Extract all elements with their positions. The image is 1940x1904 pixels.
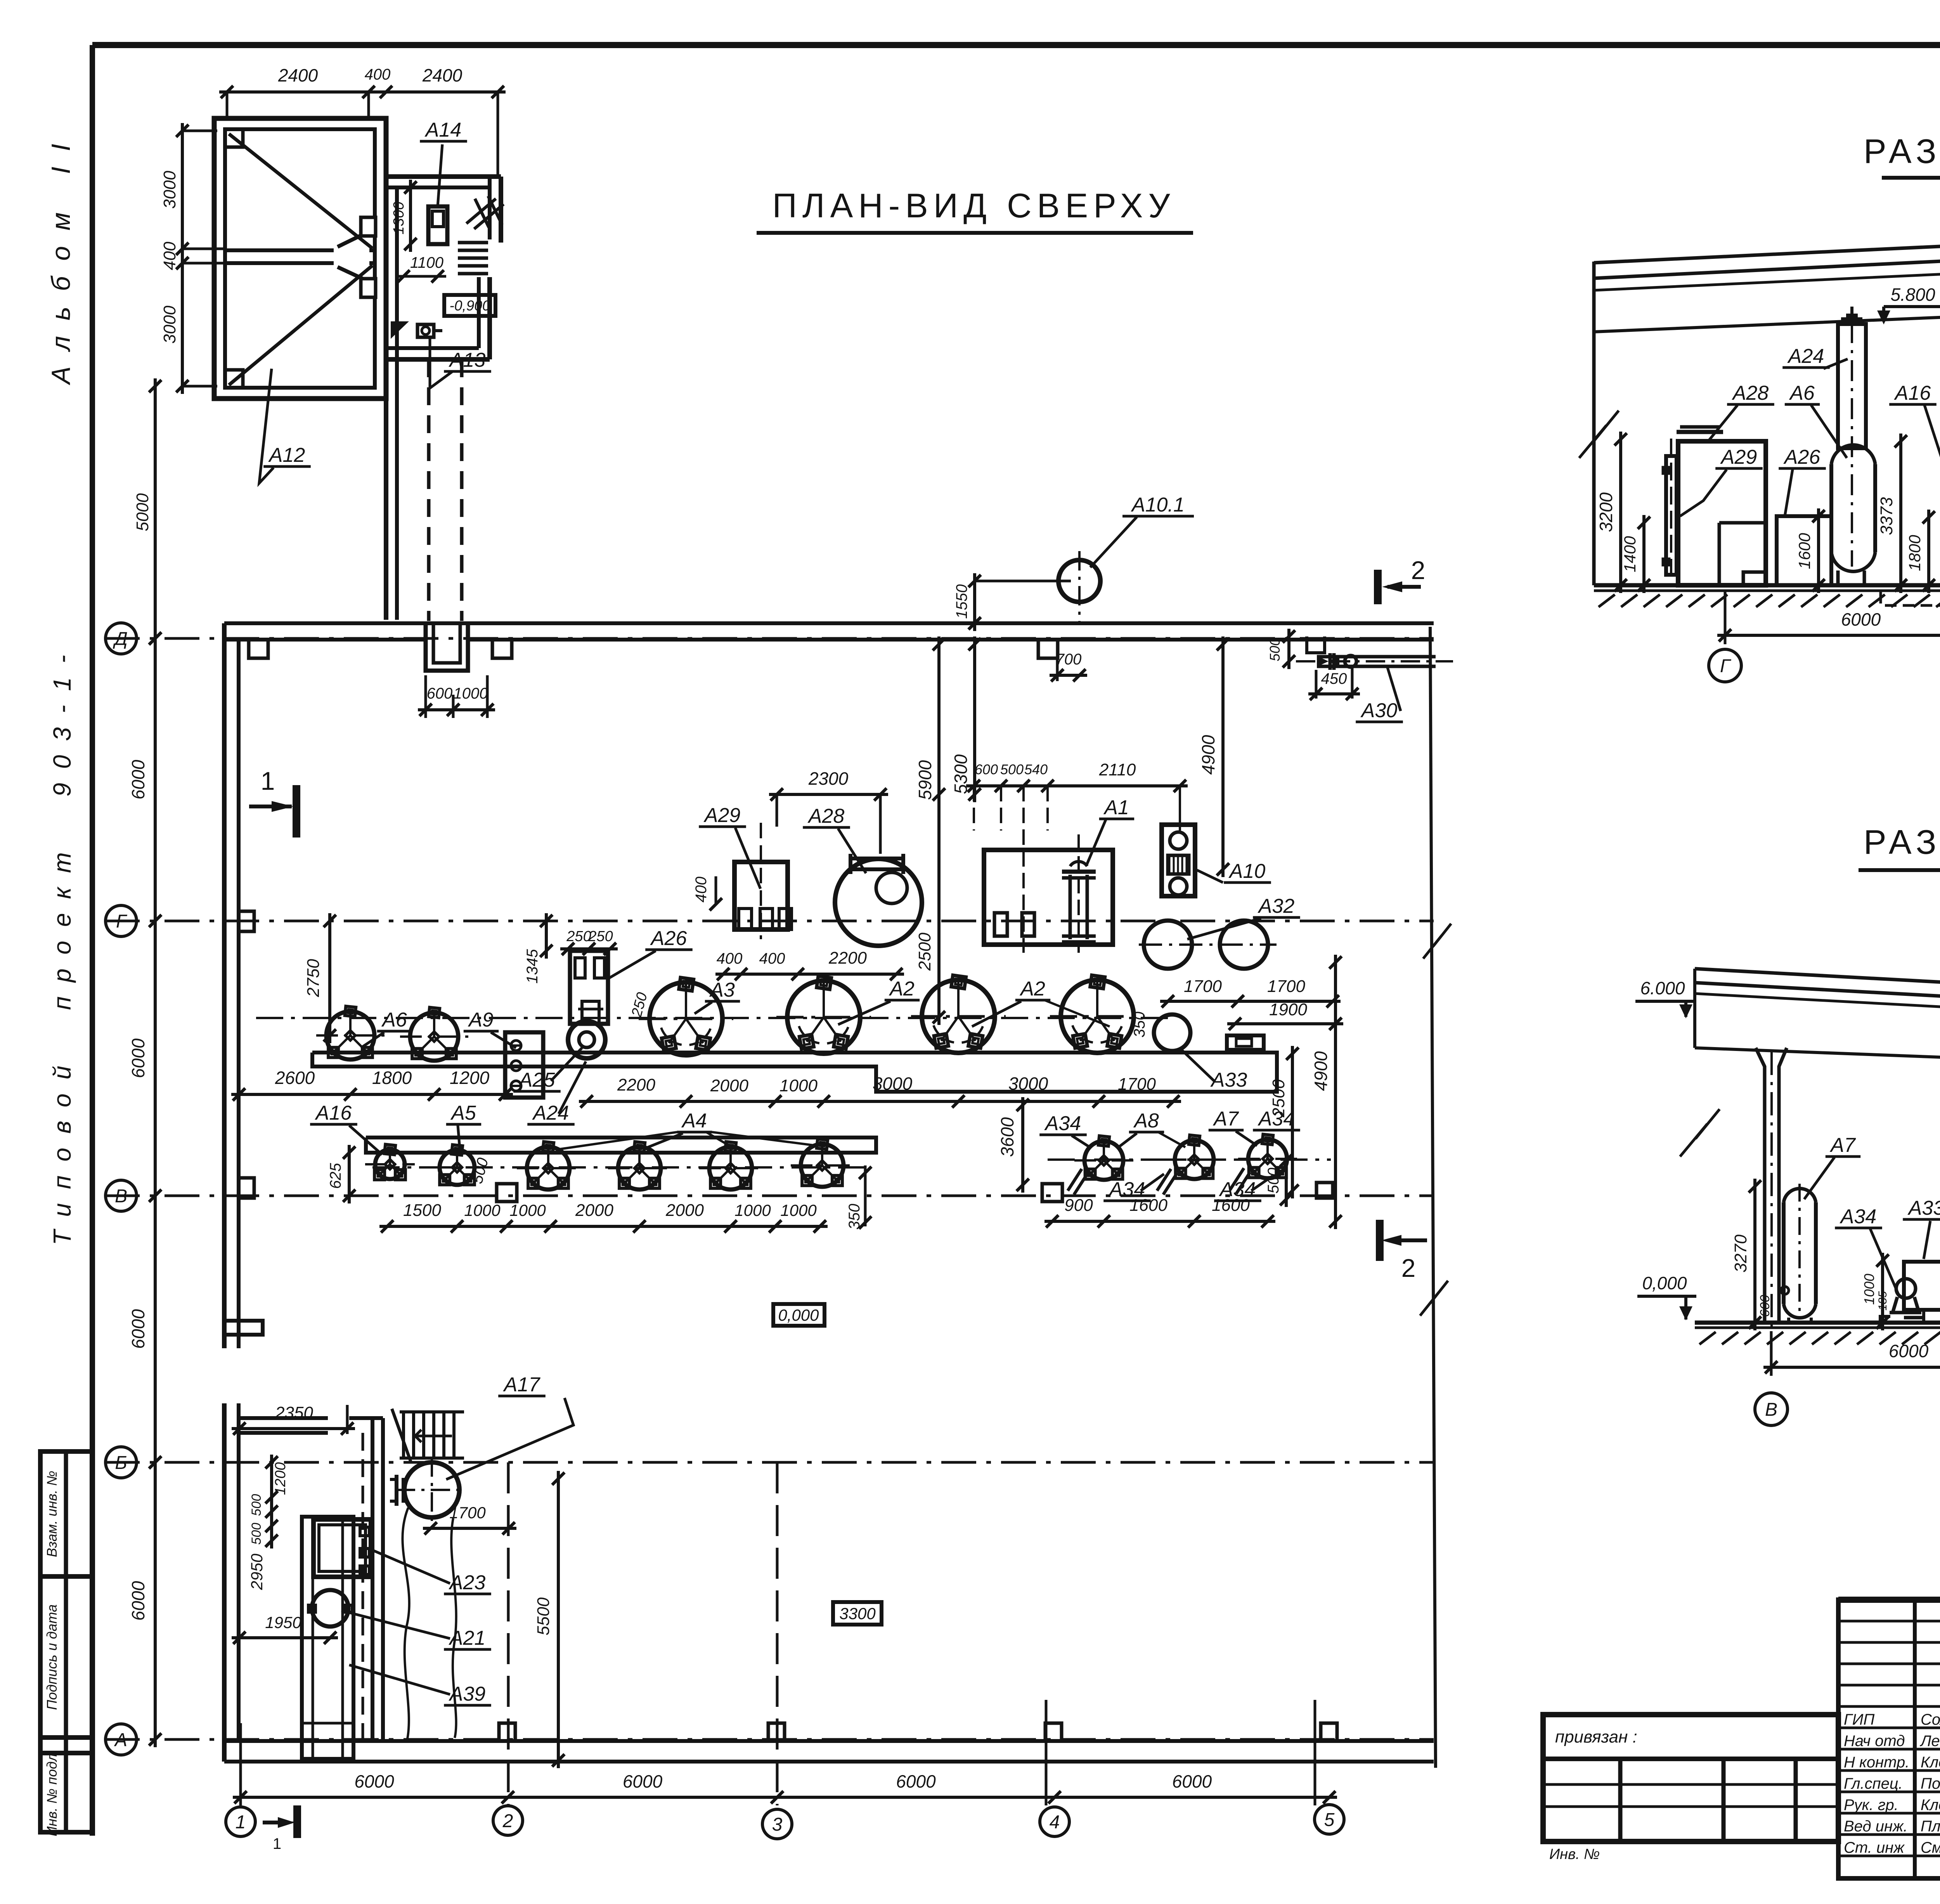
svg-text:1700: 1700 bbox=[1184, 977, 1222, 996]
tank A12 door leaf top compartment bbox=[338, 231, 369, 247]
chimney A24 (section) bbox=[1838, 324, 1866, 448]
deaerator platform band upper bbox=[312, 1053, 1277, 1092]
dim 500 rotated at A30 bbox=[1287, 629, 1290, 669]
mazut row axis centerline bbox=[1048, 1158, 1331, 1161]
svg-text:2600: 2600 bbox=[275, 1068, 315, 1088]
axis Г line bbox=[105, 920, 1434, 923]
svg-text:Лепендин: Лепендин bbox=[1919, 1732, 1940, 1750]
dim 450 at A30 bbox=[1308, 692, 1360, 695]
svg-text:4900: 4900 bbox=[1198, 735, 1218, 775]
svg-text:ГИП: ГИП bbox=[1844, 1711, 1875, 1728]
stairs at axis Б bbox=[402, 1412, 405, 1458]
dim 2750 rotated at A6 bbox=[328, 913, 331, 1043]
dim row 6000 x4 above grid circles bbox=[233, 1796, 1337, 1799]
column stub grid5 on axis А bbox=[1321, 1723, 1337, 1741]
panel A9 bbox=[505, 1032, 543, 1098]
rack A39 (plan) bbox=[302, 1517, 353, 1759]
flue duct U-connection at wall Д bbox=[426, 623, 468, 671]
dim chain 2200 2000 1000 3000 3000 1700 (row1 right) bbox=[579, 1100, 1181, 1103]
svg-text:600: 600 bbox=[427, 685, 453, 702]
section2 floor bbox=[1695, 1321, 1940, 1325]
pilaster on axis В bbox=[239, 1178, 254, 1198]
dim chain 1500 1000 1000 2000 2000 1000 1000 (row2) bbox=[379, 1225, 828, 1228]
svg-text:1345: 1345 bbox=[524, 949, 541, 984]
svg-text:А26: А26 bbox=[1783, 446, 1820, 468]
svg-text:3000: 3000 bbox=[873, 1073, 913, 1094]
svg-text:Ст. инж: Ст. инж bbox=[1844, 1839, 1905, 1856]
svg-text:Г: Г bbox=[116, 911, 128, 932]
level box 3300 in plan bbox=[833, 1602, 882, 1625]
svg-text:Д: Д bbox=[113, 629, 128, 649]
svg-text:400: 400 bbox=[693, 877, 710, 903]
grid line 3 vertical bbox=[776, 1462, 779, 1805]
column stub grid4 on axis А bbox=[1045, 1723, 1062, 1741]
corner flag symbol bbox=[391, 321, 409, 339]
unit A26 box bbox=[570, 951, 608, 1024]
svg-text:700: 700 bbox=[1056, 651, 1082, 668]
dim 3270 section2 bbox=[1753, 1179, 1756, 1330]
axis А line bbox=[105, 1738, 1434, 1741]
section2 ceiling line bbox=[1695, 1048, 1940, 1071]
svg-text:Клоков: Клоков bbox=[1921, 1796, 1940, 1814]
tank A12 top compartment diagonal bbox=[229, 134, 372, 248]
dim 2300 above A28 bbox=[769, 793, 888, 796]
hatch cross symbol bbox=[466, 199, 496, 224]
grid circle 4 bbox=[1040, 1807, 1069, 1836]
drawing break line right of plan bbox=[1430, 627, 1436, 1768]
svg-text:1600: 1600 bbox=[1212, 1196, 1250, 1215]
section2 roof slab lines bbox=[1695, 969, 1940, 1002]
mazut pump A34 #1 bbox=[1084, 1141, 1123, 1180]
dashed line in room bbox=[362, 1433, 364, 1741]
axis А circle bbox=[106, 1724, 137, 1755]
section2 axis circle В bbox=[1755, 1393, 1788, 1425]
svg-text:2400: 2400 bbox=[278, 65, 318, 85]
svg-text:А: А bbox=[114, 1730, 127, 1750]
svg-text:6000: 6000 bbox=[1889, 1341, 1929, 1361]
svg-text:2110: 2110 bbox=[1099, 760, 1136, 779]
dim 1700 in room bbox=[423, 1527, 516, 1530]
svg-text:А10.1: А10.1 bbox=[1131, 494, 1185, 516]
svg-text:1800: 1800 bbox=[1905, 535, 1924, 571]
svg-text:1200: 1200 bbox=[450, 1068, 490, 1088]
tank A12 inner wall bbox=[225, 129, 375, 388]
section1 floor line bbox=[1594, 583, 1940, 588]
svg-text:1000: 1000 bbox=[779, 1076, 818, 1095]
box A33 (section2) bbox=[1904, 1262, 1940, 1310]
svg-text:2400: 2400 bbox=[422, 65, 462, 85]
svg-text:2950: 2950 bbox=[248, 1554, 266, 1590]
interior wall top horizontal with door bbox=[239, 1416, 328, 1420]
svg-text:Альбом II: Альбом II bbox=[46, 128, 76, 386]
section1 underfloor duct dashed bbox=[1881, 592, 1940, 605]
svg-text:185: 185 bbox=[1876, 1291, 1889, 1311]
pump platform band lower bbox=[366, 1138, 876, 1153]
svg-text:А17: А17 bbox=[503, 1373, 541, 1396]
svg-text:0,000: 0,000 bbox=[1642, 1273, 1687, 1293]
svg-text:3000: 3000 bbox=[160, 171, 179, 209]
svg-text:А24: А24 bbox=[1787, 345, 1824, 368]
panel A29 (section) bbox=[1666, 456, 1677, 575]
svg-text:500: 500 bbox=[249, 1523, 264, 1545]
pump A13 symbol bbox=[417, 324, 434, 337]
svg-text:А4: А4 bbox=[681, 1110, 707, 1132]
svg-text:6000: 6000 bbox=[1172, 1771, 1212, 1791]
pump A4 #3 bbox=[709, 1147, 752, 1190]
svg-text:А6: А6 bbox=[1789, 382, 1815, 404]
dim 5900 vertical bbox=[937, 636, 941, 1025]
section 2-2 lower mark bbox=[1400, 1238, 1427, 1242]
oil heater A17 circle (plan) bbox=[404, 1462, 459, 1517]
svg-text:2: 2 bbox=[502, 1811, 513, 1831]
dim 4900 vertical right bbox=[1221, 636, 1225, 877]
device A14 in pit bbox=[428, 206, 447, 244]
svg-text:3600: 3600 bbox=[997, 1117, 1017, 1157]
svg-text:А28: А28 bbox=[1732, 382, 1769, 404]
svg-text:1300: 1300 bbox=[391, 202, 407, 235]
svg-text:Портной: Портной bbox=[1921, 1775, 1940, 1792]
svg-text:Взам. инв. №: Взам. инв. № bbox=[44, 1471, 60, 1557]
svg-text:Клоков: Клоков bbox=[1921, 1754, 1940, 1771]
svg-text:600: 600 bbox=[1758, 1295, 1772, 1317]
top exterior wall along axis Д bbox=[224, 621, 1434, 625]
tank A12 bottom compartment diagonal bbox=[229, 265, 372, 385]
svg-text:2350: 2350 bbox=[275, 1403, 313, 1422]
svg-text:1000: 1000 bbox=[454, 685, 488, 702]
pump A4 #4 bbox=[801, 1144, 844, 1187]
tank A21 (plan) bbox=[312, 1590, 348, 1627]
svg-text:1100: 1100 bbox=[410, 254, 443, 271]
svg-text:1000: 1000 bbox=[1861, 1274, 1877, 1305]
svg-text:А34: А34 bbox=[1044, 1112, 1081, 1135]
boiler A2 #1 bbox=[787, 981, 860, 1054]
svg-text:Б: Б bbox=[115, 1453, 127, 1473]
pump A25 donut bbox=[568, 1021, 605, 1058]
svg-text:3373: 3373 bbox=[1877, 497, 1896, 535]
svg-text:РАЗРЕЗ 1-1: РАЗРЕЗ 1-1 bbox=[1864, 132, 1940, 170]
svg-text:6000: 6000 bbox=[354, 1771, 394, 1791]
svg-text:А25: А25 bbox=[518, 1069, 556, 1091]
axis Д circle bbox=[106, 623, 137, 654]
boiler unit A1 box bbox=[984, 850, 1113, 945]
section1 dim row 6000 6000 60000 bbox=[1717, 634, 1940, 637]
tank A28 circle bbox=[835, 859, 922, 946]
svg-text:РАЗРЕЗ 2-2: РАЗРЕЗ 2-2 bbox=[1864, 823, 1940, 861]
svg-text:3000: 3000 bbox=[160, 305, 179, 343]
unit A10 plate bbox=[1162, 825, 1195, 896]
svg-text:Г: Г bbox=[1720, 656, 1732, 676]
svg-text:А16: А16 bbox=[315, 1102, 352, 1124]
bottom exterior wall along axis А bbox=[224, 1739, 1434, 1743]
svg-text:А10: А10 bbox=[1228, 860, 1266, 883]
column stub grid2 on axis Д bbox=[492, 640, 512, 658]
left margin vertical dim chain 6000 x4 bbox=[154, 631, 157, 1747]
dim 1900 row bbox=[1227, 1022, 1343, 1025]
dim 1300 at pit bbox=[409, 180, 412, 252]
svg-text:1000: 1000 bbox=[734, 1201, 771, 1219]
section1 floor hatching bbox=[1599, 595, 1615, 607]
svg-text:6000: 6000 bbox=[128, 1309, 148, 1349]
pilaster on axis Г bbox=[239, 911, 254, 931]
svg-text:1000: 1000 bbox=[464, 1201, 501, 1219]
pump A34 (section2) bbox=[1896, 1279, 1916, 1298]
svg-text:1: 1 bbox=[236, 1812, 246, 1833]
svg-text:А16: А16 bbox=[1894, 382, 1931, 404]
column stub grid4 on axis Д bbox=[1038, 640, 1058, 658]
svg-text:5000: 5000 bbox=[133, 493, 152, 531]
duct dashed walls down to boiler house wall bbox=[427, 359, 431, 621]
svg-text:2: 2 bbox=[1401, 1254, 1416, 1282]
pit ladder bbox=[458, 241, 488, 245]
dim 1600 at A26 bbox=[1817, 508, 1820, 593]
door gap in tank middle wall bbox=[334, 248, 369, 265]
pump row A4 axis centerline bbox=[372, 1166, 873, 1169]
svg-text:3270: 3270 bbox=[1731, 1235, 1750, 1273]
svg-text:250: 250 bbox=[566, 928, 591, 945]
svg-text:1550: 1550 bbox=[953, 584, 970, 619]
grid circle 3 bbox=[762, 1809, 792, 1839]
svg-text:2200: 2200 bbox=[617, 1075, 655, 1094]
section2 left edge bbox=[1693, 969, 1696, 1048]
svg-text:В: В bbox=[1765, 1399, 1777, 1420]
privyazan sub columns bbox=[1618, 1759, 1623, 1842]
boiler A2 #3 bbox=[1061, 980, 1134, 1053]
svg-text:500: 500 bbox=[1000, 761, 1024, 777]
svg-text:А26: А26 bbox=[650, 927, 687, 950]
svg-text:Типовой проект 903-1-: Типовой проект 903-1- bbox=[48, 641, 76, 1245]
pit top wall bbox=[386, 174, 501, 179]
margin stamp boxes bottom-left bbox=[40, 1451, 92, 1832]
svg-text:Нач отд: Нач отд bbox=[1844, 1732, 1905, 1750]
svg-text:2000: 2000 bbox=[575, 1201, 613, 1220]
svg-text:2000: 2000 bbox=[710, 1076, 748, 1095]
deaerator A6 vessel (section) bbox=[1831, 445, 1875, 464]
svg-text:Н контр.: Н контр. bbox=[1844, 1754, 1909, 1771]
dim 3373 at A6 bbox=[1899, 434, 1902, 593]
section2 left column with head bbox=[1756, 1048, 1765, 1323]
svg-text:А13: А13 bbox=[449, 349, 486, 371]
axis Д line bbox=[105, 637, 1434, 640]
column stub grid3 on axis А bbox=[768, 1723, 785, 1741]
dim 500 rotated right bbox=[1285, 1153, 1288, 1207]
svg-text:привязан :: привязан : bbox=[1555, 1727, 1637, 1746]
svg-text:2000: 2000 bbox=[665, 1201, 704, 1220]
svg-text:Рук. гр.: Рук. гр. bbox=[1844, 1796, 1898, 1814]
tank A12 door leaf bottom compartment bbox=[338, 267, 369, 282]
svg-text:А8: А8 bbox=[1133, 1110, 1159, 1132]
column stub grid2 on axis А bbox=[499, 1723, 515, 1741]
axis Г circle bbox=[106, 905, 137, 936]
svg-text:А6: А6 bbox=[381, 1009, 407, 1031]
mazut pump A8 bbox=[1175, 1140, 1214, 1179]
svg-text:4900: 4900 bbox=[1311, 1051, 1331, 1091]
curved pipe in pump room bbox=[402, 1508, 409, 1739]
svg-text:1200: 1200 bbox=[272, 1462, 289, 1495]
svg-text:А9: А9 bbox=[468, 1009, 494, 1031]
svg-text:400: 400 bbox=[759, 950, 785, 967]
svg-text:3300: 3300 bbox=[839, 1604, 876, 1623]
svg-text:2300: 2300 bbox=[808, 768, 849, 789]
svg-text:А29: А29 bbox=[703, 804, 741, 827]
svg-text:5.800: 5.800 bbox=[1890, 284, 1935, 305]
svg-text:А2: А2 bbox=[1019, 978, 1045, 1000]
A1 internal cylinder bbox=[1069, 875, 1072, 939]
dim 700 bbox=[1050, 674, 1087, 677]
svg-text:А33: А33 bbox=[1210, 1069, 1247, 1091]
A10 hatched roller bbox=[1168, 855, 1189, 874]
svg-text:1000: 1000 bbox=[780, 1201, 817, 1219]
axis В line bbox=[105, 1195, 1434, 1197]
dim chain 600 500 540 2110 bbox=[966, 784, 1188, 787]
A30 valve symbol bbox=[1317, 656, 1339, 667]
svg-text:1700: 1700 bbox=[1118, 1075, 1156, 1094]
svg-text:350: 350 bbox=[1131, 1012, 1148, 1038]
tank A12 wall notch right top bbox=[361, 217, 376, 236]
svg-text:1500: 1500 bbox=[403, 1201, 441, 1220]
dim 1550 rotated bbox=[973, 573, 976, 631]
pit bottom wall bbox=[386, 346, 479, 350]
tank A12 corner gusset bottom-left bbox=[225, 370, 243, 388]
grid circle 2 bbox=[493, 1806, 523, 1835]
pit right wall lower bbox=[477, 277, 481, 348]
svg-text:5500: 5500 bbox=[534, 1597, 553, 1635]
section1 ceiling line bbox=[1594, 315, 1940, 337]
svg-text:500: 500 bbox=[1265, 1168, 1282, 1194]
mazut pump A7/A34 bbox=[1248, 1139, 1287, 1178]
hatch marks at mazut pumps bbox=[1074, 1173, 1088, 1195]
svg-text:1000: 1000 bbox=[509, 1201, 546, 1219]
dim chain left of tank: 3000 400 3000 bbox=[181, 123, 184, 394]
svg-text:Гл.спец.: Гл.спец. bbox=[1844, 1775, 1903, 1792]
svg-text:А30: А30 bbox=[1360, 699, 1398, 722]
svg-text:900: 900 bbox=[1064, 1196, 1093, 1215]
section1 axis circle Г bbox=[1709, 649, 1741, 682]
svg-text:А14: А14 bbox=[424, 119, 462, 141]
svg-text:5900: 5900 bbox=[915, 760, 935, 800]
dim chain 2600 1800 1200 (row1 left) bbox=[231, 1093, 513, 1096]
svg-text:6000: 6000 bbox=[128, 1038, 148, 1078]
svg-text:6000: 6000 bbox=[896, 1771, 936, 1791]
svg-text:Плинер: Плинер bbox=[1921, 1818, 1940, 1835]
svg-text:А34: А34 bbox=[1258, 1108, 1295, 1130]
svg-text:А28: А28 bbox=[807, 805, 845, 827]
water heater A6 circle 2 bbox=[410, 1013, 458, 1061]
tank A12 corner gusset top-left bbox=[225, 129, 243, 147]
interior partition wall vertical bbox=[371, 1418, 374, 1741]
svg-text:Подпись и дата: Подпись и дата bbox=[44, 1604, 60, 1710]
svg-text:5300: 5300 bbox=[951, 754, 971, 794]
svg-text:2750: 2750 bbox=[304, 959, 323, 997]
axis В circle bbox=[106, 1180, 137, 1211]
svg-text:ПЛАН-ВИД СВЕРХУ: ПЛАН-ВИД СВЕРХУ bbox=[773, 186, 1176, 225]
svg-text:А33: А33 bbox=[1907, 1197, 1940, 1219]
stamp signature table bbox=[1838, 1600, 1940, 1878]
anchor square on axis В #2 bbox=[1042, 1184, 1062, 1202]
vessel A7 (section2) bbox=[1784, 1188, 1816, 1202]
svg-text:450: 450 bbox=[1321, 670, 1347, 687]
section2 dim row 6000 6000 bbox=[1763, 1366, 1940, 1369]
dim chain top of tank: 2400 400 2400 bbox=[219, 90, 506, 94]
svg-text:500: 500 bbox=[249, 1494, 264, 1516]
pit left wall (duct walls down) bbox=[384, 177, 388, 620]
svg-text:1950: 1950 bbox=[265, 1613, 301, 1632]
anchor square on axis В #1 bbox=[497, 1184, 517, 1202]
svg-text:А2: А2 bbox=[889, 978, 915, 1000]
axis Б line bbox=[105, 1461, 1434, 1464]
dim 3200 left bbox=[1619, 432, 1622, 593]
blower box A29 bbox=[734, 862, 788, 929]
svg-text:А3: А3 bbox=[709, 979, 735, 1001]
privyazan box bbox=[1543, 1715, 1838, 1842]
svg-text:500: 500 bbox=[1267, 638, 1283, 661]
tank A12 outer wall bbox=[214, 118, 386, 399]
pump A4 #1 bbox=[527, 1147, 570, 1190]
tank A28 bracket bbox=[849, 857, 905, 860]
svg-text:625: 625 bbox=[327, 1163, 344, 1189]
svg-text:3: 3 bbox=[772, 1814, 783, 1835]
tank A12 wall notch right bottom bbox=[361, 279, 376, 297]
dim 2350 bbox=[232, 1427, 355, 1430]
svg-text:250: 250 bbox=[588, 928, 613, 945]
svg-text:Смирнова: Смирнова bbox=[1921, 1839, 1940, 1856]
svg-text:3200: 3200 bbox=[1596, 492, 1616, 532]
title block outer border bbox=[1838, 1600, 1940, 1878]
svg-text:3000: 3000 bbox=[1008, 1073, 1048, 1094]
svg-text:6000: 6000 bbox=[623, 1771, 663, 1791]
dim 4900 vertical far right bbox=[1334, 955, 1337, 1229]
feed pump A16 bbox=[375, 1150, 405, 1179]
dim 5500 rotated bbox=[557, 1471, 560, 1768]
svg-text:400: 400 bbox=[717, 950, 743, 967]
column stub grid1 on axis Д bbox=[249, 640, 268, 658]
svg-text:1700: 1700 bbox=[449, 1503, 486, 1522]
dim 1950 bbox=[232, 1636, 338, 1639]
wall piece above axis Б (left) bbox=[224, 1321, 263, 1335]
water heater A6 circle 1 bbox=[326, 1011, 374, 1060]
svg-text:1400: 1400 bbox=[1621, 536, 1639, 572]
svg-text:1700: 1700 bbox=[1267, 977, 1305, 996]
svg-text:А7: А7 bbox=[1829, 1134, 1856, 1157]
svg-text:А34: А34 bbox=[1840, 1205, 1877, 1228]
svg-text:1: 1 bbox=[273, 1835, 281, 1852]
sheet frame top border bbox=[92, 42, 1940, 48]
svg-text:540: 540 bbox=[1024, 761, 1048, 777]
svg-text:1600: 1600 bbox=[1129, 1196, 1167, 1215]
svg-text:4: 4 bbox=[1050, 1812, 1060, 1833]
svg-text:6000: 6000 bbox=[1841, 609, 1881, 629]
dim 1345 left of A26 bbox=[545, 913, 548, 959]
svg-text:1800: 1800 bbox=[372, 1068, 412, 1088]
grid line 5 vertical bbox=[1314, 1700, 1316, 1805]
svg-text:А5: А5 bbox=[450, 1102, 476, 1124]
A30 support column bbox=[1307, 636, 1325, 653]
svg-text:А12: А12 bbox=[268, 444, 305, 466]
svg-text:400: 400 bbox=[160, 241, 179, 270]
feed pump A5 bbox=[440, 1150, 475, 1185]
svg-text:В: В bbox=[115, 1186, 127, 1207]
dim 5000 (tank to axis Д) bbox=[154, 378, 157, 646]
dim chain 1200 500 500 left in room bbox=[270, 1455, 273, 1549]
svg-text:2500: 2500 bbox=[915, 933, 934, 971]
svg-text:Вед инж.: Вед инж. bbox=[1844, 1818, 1908, 1835]
boiler A2 #2 bbox=[922, 980, 995, 1053]
svg-text:1: 1 bbox=[261, 766, 275, 795]
axis Б circle bbox=[106, 1447, 137, 1478]
svg-text:600: 600 bbox=[975, 761, 998, 777]
anchor square on axis В #3 bbox=[1316, 1183, 1333, 1198]
section1 roof lines bbox=[1594, 244, 1940, 282]
svg-text:Инв. №: Инв. № bbox=[1549, 1846, 1600, 1862]
